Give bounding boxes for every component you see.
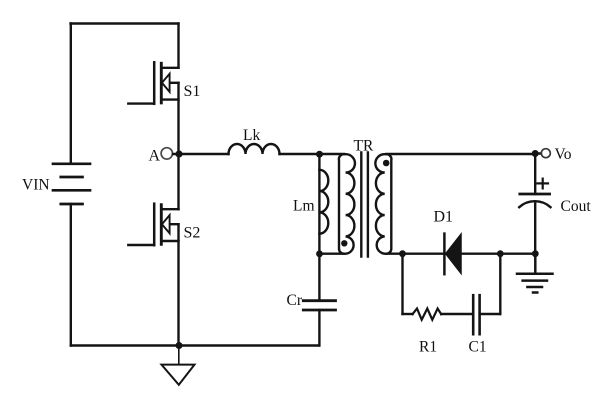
polarity dot secondary <box>383 160 390 167</box>
transistor S2 <box>128 204 178 246</box>
inductor Lm terminal line <box>318 154 320 254</box>
ground left triangle <box>162 365 195 385</box>
junction bottom rail <box>176 342 183 349</box>
wire primary bottom <box>319 252 344 254</box>
plus sign Cout <box>537 179 548 189</box>
wire Cout to ground <box>534 204 536 254</box>
node Vo open circle <box>541 149 550 158</box>
transformer primary winding <box>339 154 355 254</box>
junction transformer bottom left <box>316 250 323 257</box>
svg-text:C1: C1 <box>469 339 487 356</box>
capacitor C1 <box>473 295 479 334</box>
wire resistor to C1 <box>441 313 473 315</box>
wire S1 source to node A to S2 drain <box>177 83 179 209</box>
wire C1 to right vertical <box>480 313 501 315</box>
polarity dot primary <box>341 240 347 246</box>
svg-text:D1: D1 <box>434 209 454 226</box>
wire bottom rail <box>71 344 319 346</box>
junction Vo <box>532 150 539 157</box>
wire S2 source down to bottom rail <box>177 224 179 345</box>
wire to resistor <box>403 313 413 315</box>
wire Vo down to Cout <box>534 154 536 195</box>
ground left stub <box>178 348 180 364</box>
junction transformer top left <box>316 151 323 158</box>
wire node A to Lk <box>173 153 229 155</box>
wire secondary bottom rail <box>386 252 535 254</box>
svg-text:S1: S1 <box>184 83 201 100</box>
capacitor Cr <box>303 301 335 310</box>
wire Cr to bottom rail <box>318 310 320 346</box>
ground right <box>517 254 553 293</box>
svg-text:TR: TR <box>354 138 374 155</box>
resistor R1 <box>413 309 442 320</box>
capacitor Cout <box>519 194 550 207</box>
svg-text:Cr: Cr <box>287 292 303 309</box>
wire top horizontal <box>71 22 179 24</box>
svg-text:R1: R1 <box>419 339 437 356</box>
transformer secondary winding <box>375 154 391 254</box>
transformer core bars <box>360 153 362 257</box>
wire Lk to transformer <box>280 153 345 155</box>
junction Cout bottom <box>532 250 539 257</box>
wire RC branch right vertical <box>499 254 501 314</box>
diode D1 <box>444 234 461 275</box>
wire secondary top to Vo <box>386 152 541 155</box>
wire battery to bottom rail <box>70 204 72 346</box>
svg-text:Vo: Vo <box>555 146 572 163</box>
wire RC branch left vertical <box>401 254 403 314</box>
svg-text:A: A <box>149 148 161 165</box>
junction D1 right <box>497 250 504 257</box>
svg-text:Cout: Cout <box>561 198 592 215</box>
wire main vertical upper (top rail to S1 drain) <box>177 24 179 68</box>
inductor Lm bumps <box>319 170 328 234</box>
junction D1 left <box>399 250 406 257</box>
wire Lm to Cr <box>318 254 320 301</box>
svg-text:S2: S2 <box>184 225 201 242</box>
svg-text:VIN: VIN <box>22 177 50 194</box>
svg-text:Lk: Lk <box>243 127 260 144</box>
svg-text:Lm: Lm <box>293 198 315 215</box>
junction node A <box>175 150 182 157</box>
inductor Lk <box>229 144 280 154</box>
battery VIN <box>53 164 90 204</box>
wire left vertical to battery <box>70 24 72 164</box>
node A open circle <box>161 148 172 159</box>
transistor S1 <box>128 62 178 104</box>
